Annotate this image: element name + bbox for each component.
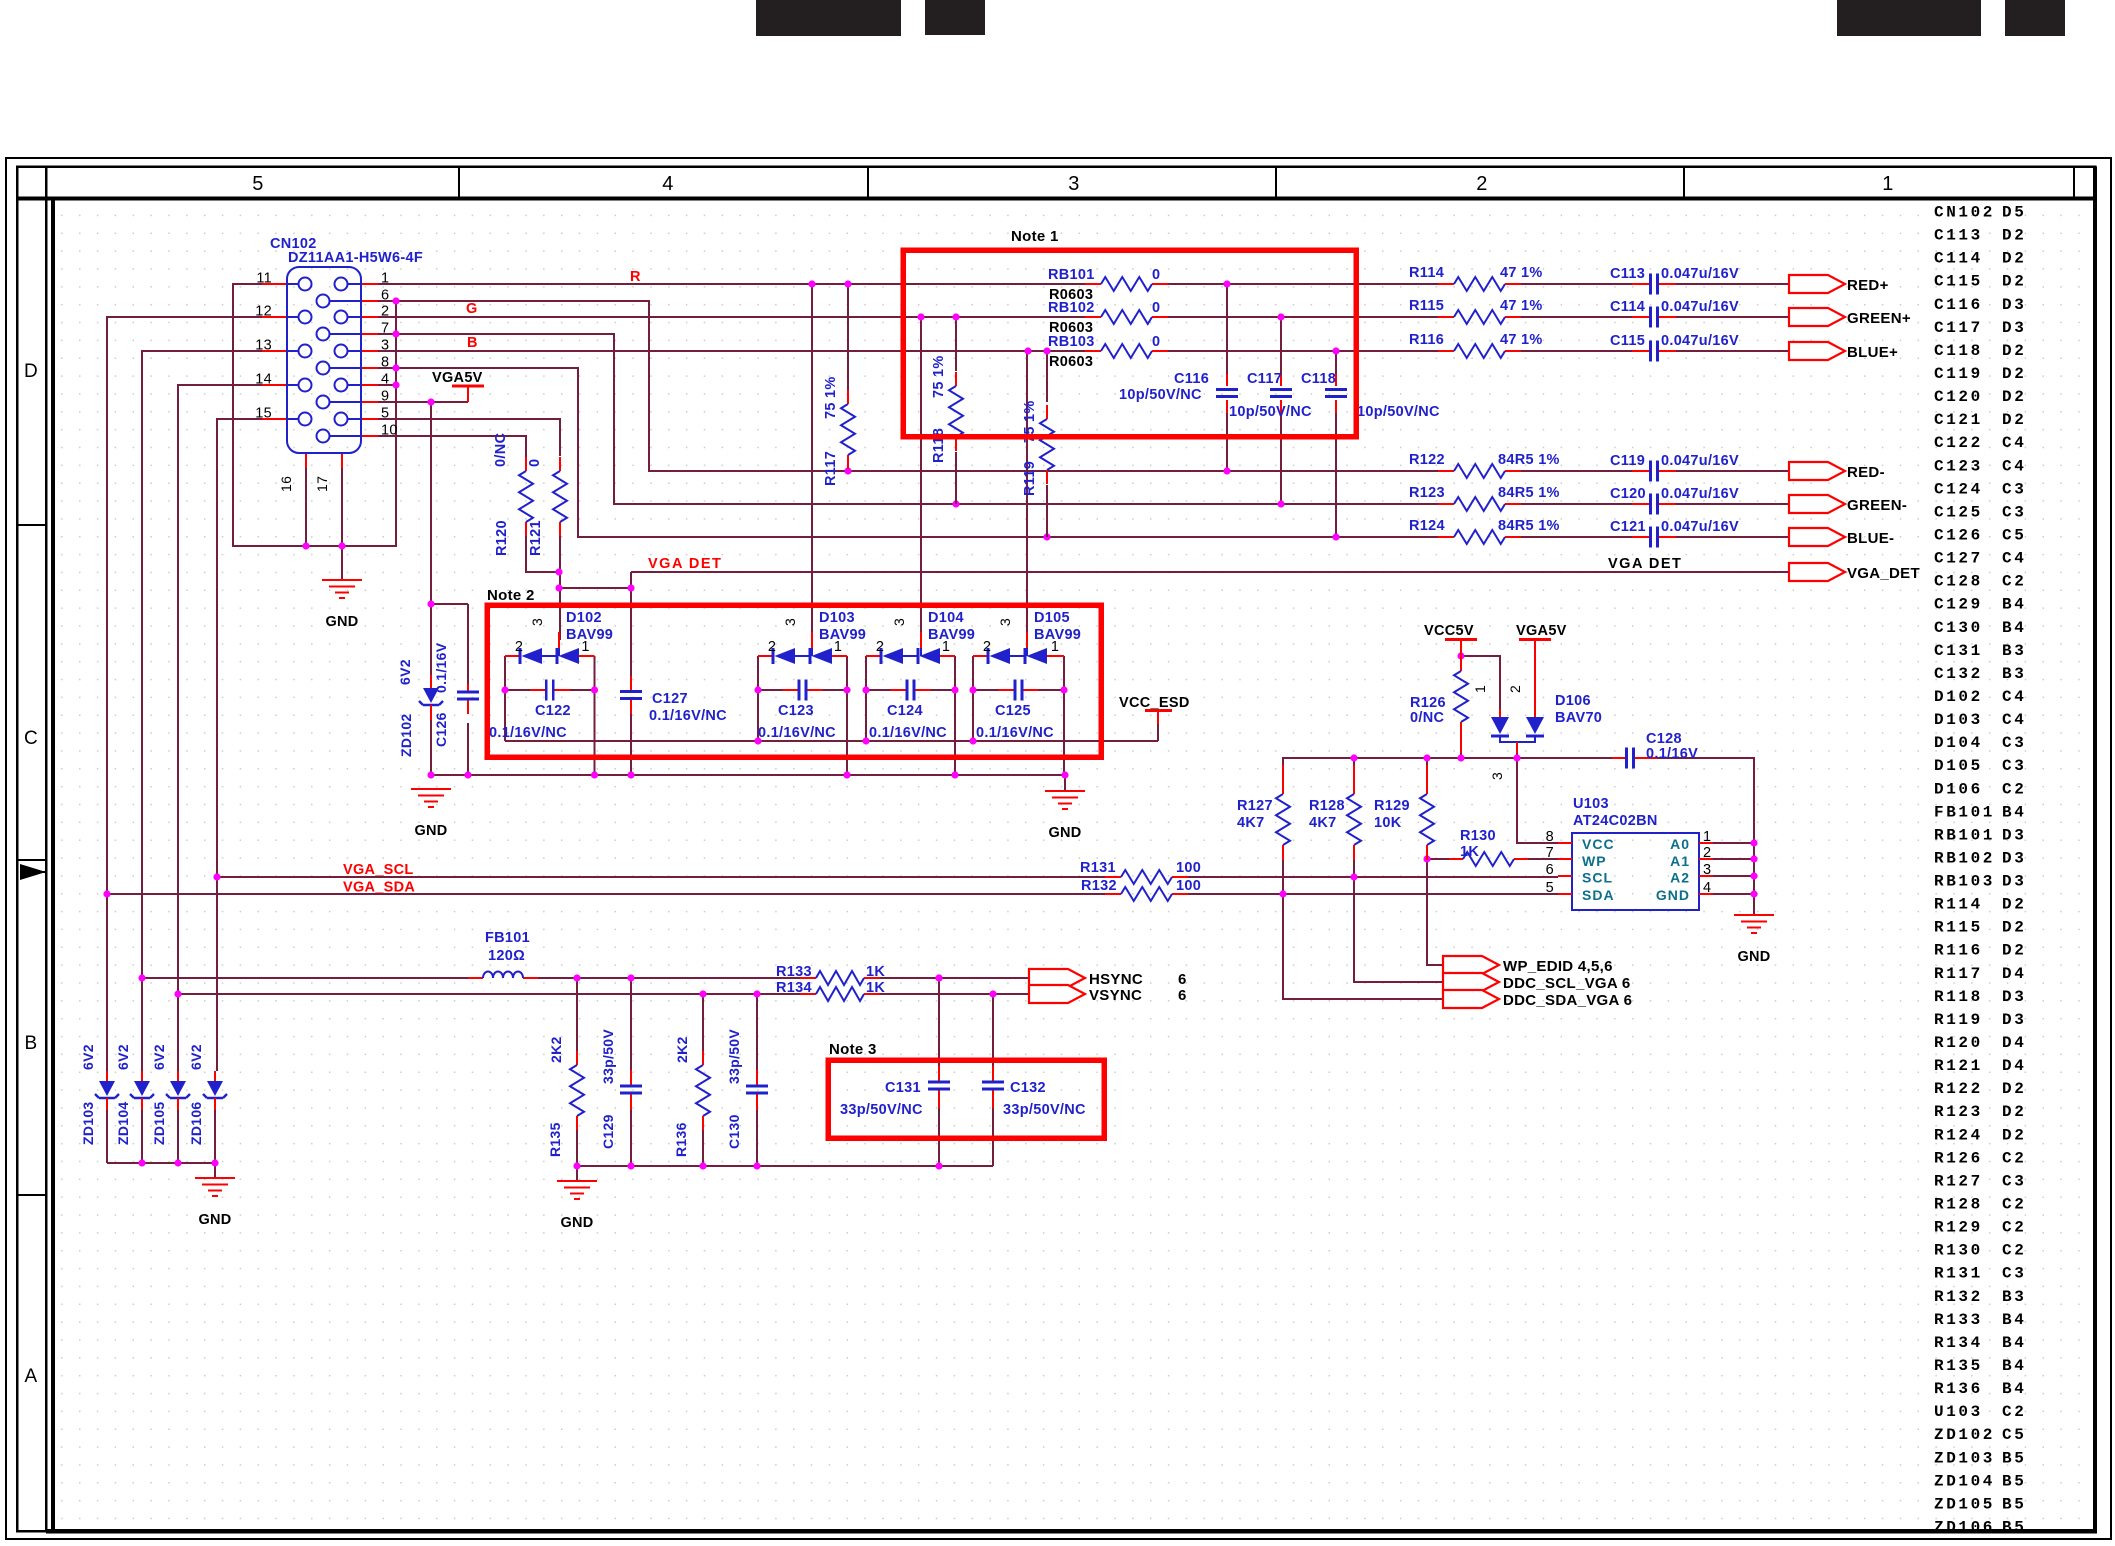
svg-text:B3: B3: [2002, 665, 2026, 683]
column zone dividers: [459, 167, 2074, 199]
svg-text:RB103: RB103: [1934, 873, 1995, 891]
svg-text:GND: GND: [1737, 949, 1770, 965]
wire ZD102 branch from pin9: [431, 402, 468, 775]
resistor R114 47 1%: [1409, 265, 1543, 291]
svg-text:Note 1: Note 1: [1011, 228, 1059, 245]
svg-text:C126: C126: [1934, 526, 1983, 544]
svg-text:R117: R117: [823, 451, 839, 486]
svg-text:5: 5: [252, 173, 263, 195]
svg-text:ZD106: ZD106: [188, 1101, 204, 1145]
wire D105 pin3 column: [1026, 351, 1028, 632]
svg-text:R126: R126: [1934, 1149, 1983, 1167]
ground symbol ZD102: [411, 789, 451, 807]
svg-text:D: D: [24, 361, 38, 382]
capacitor C123 0.1/16V/NC: [758, 680, 836, 742]
svg-text:VGA_DET: VGA_DET: [1847, 565, 1920, 582]
svg-text:D3: D3: [2002, 873, 2026, 891]
wire C127 column: [630, 676, 632, 775]
wire D104 pin3 column: [920, 317, 922, 632]
svg-text:GREEN+: GREEN+: [1847, 310, 1911, 327]
svg-text:D3: D3: [2002, 1011, 2026, 1029]
svg-text:R132: R132: [1081, 878, 1117, 894]
svg-text:33p/50V: 33p/50V: [600, 1029, 616, 1084]
svg-text:VCC5V: VCC5V: [1424, 623, 1474, 639]
svg-text:C115: C115: [1610, 333, 1645, 349]
svg-text:D2: D2: [2002, 1080, 2026, 1098]
svg-text:A0: A0: [1670, 836, 1690, 852]
resistor R118 75 1%: [931, 355, 963, 463]
svg-text:C129: C129: [600, 1114, 616, 1149]
wire net VSYNC (pin14): [178, 385, 1029, 1071]
svg-text:R115: R115: [1409, 298, 1444, 314]
svg-text:C118: C118: [1934, 342, 1983, 360]
svg-text:D2: D2: [2002, 227, 2026, 245]
svg-text:C2: C2: [2002, 1219, 2026, 1237]
svg-text:1K: 1K: [866, 980, 885, 996]
svg-text:C119: C119: [1610, 453, 1645, 469]
svg-text:D4: D4: [2002, 965, 2026, 983]
svg-text:3: 3: [529, 618, 545, 626]
svg-text:75 1%: 75 1%: [823, 376, 839, 419]
svg-text:1: 1: [1882, 173, 1893, 195]
svg-text:D2: D2: [2002, 942, 2026, 960]
svg-text:2: 2: [1507, 685, 1523, 693]
svg-text:12: 12: [255, 304, 272, 320]
svg-text:7: 7: [381, 321, 389, 337]
svg-text:B5: B5: [2002, 1449, 2026, 1467]
svg-text:GND: GND: [325, 614, 358, 630]
resistor R126 0/NC: [1410, 656, 1468, 753]
svg-text:C126: C126: [433, 712, 449, 747]
svg-text:0.047u/16V: 0.047u/16V: [1661, 333, 1739, 349]
svg-text:B4: B4: [2002, 1311, 2026, 1329]
capacitor C126 0.1/16V: [433, 642, 479, 747]
svg-text:1: 1: [1703, 829, 1711, 845]
svg-text:C3: C3: [2002, 480, 2026, 498]
svg-text:D4: D4: [2002, 1057, 2026, 1075]
port GREEN+: [1789, 308, 1911, 327]
svg-text:R136: R136: [1934, 1380, 1983, 1398]
svg-text:D104: D104: [928, 610, 964, 626]
svg-text:B: B: [25, 1033, 38, 1054]
wire U103 right pins to GND column: [1713, 843, 1754, 894]
svg-text:ZD103: ZD103: [80, 1101, 96, 1145]
svg-text:B4: B4: [2002, 1380, 2026, 1398]
svg-text:R120: R120: [1934, 1034, 1983, 1052]
svg-text:D2: D2: [2002, 365, 2026, 383]
svg-text:0.047u/16V: 0.047u/16V: [1661, 486, 1739, 502]
svg-text:B5: B5: [2002, 1472, 2026, 1490]
svg-text:0.1/16V/NC: 0.1/16V/NC: [869, 725, 947, 741]
wire net VGA_SCL (pin15): [217, 419, 1558, 1071]
svg-text:R116: R116: [1409, 332, 1444, 348]
redaction bar 3: [1837, 0, 1981, 36]
redaction bar 1: [756, 0, 901, 36]
svg-text:7: 7: [1546, 845, 1554, 861]
svg-text:ZD105: ZD105: [1934, 1495, 1995, 1513]
svg-text:13: 13: [255, 338, 272, 354]
svg-text:D3: D3: [2002, 826, 2026, 844]
svg-text:C121: C121: [1934, 411, 1983, 429]
svg-text:C117: C117: [1934, 319, 1983, 337]
svg-text:FB101: FB101: [485, 930, 530, 946]
svg-text:R120: R120: [494, 520, 510, 556]
svg-text:R118: R118: [1934, 988, 1983, 1006]
svg-text:BAV99: BAV99: [819, 627, 866, 643]
svg-text:B4: B4: [2002, 619, 2026, 637]
svg-text:33p/50V/NC: 33p/50V/NC: [840, 1102, 923, 1118]
zener diode ZD104 6V2: [115, 1044, 154, 1145]
svg-text:A1: A1: [1670, 853, 1690, 869]
svg-text:2: 2: [515, 639, 523, 655]
port DDC_SCL_VGA: [1443, 973, 1631, 992]
svg-text:R130: R130: [1934, 1242, 1983, 1260]
svg-text:R135: R135: [547, 1122, 563, 1157]
svg-text:B5: B5: [2002, 1495, 2026, 1513]
svg-text:Note 3: Note 3: [829, 1041, 877, 1058]
svg-text:GREEN-: GREEN-: [1847, 497, 1907, 514]
svg-text:WP_EDID 4,5,6: WP_EDID 4,5,6: [1503, 958, 1613, 975]
svg-text:3: 3: [997, 618, 1013, 626]
svg-text:3: 3: [1068, 173, 1079, 195]
svg-text:C3: C3: [2002, 1172, 2026, 1190]
svg-text:R135: R135: [1934, 1357, 1983, 1375]
svg-text:3: 3: [381, 338, 389, 354]
svg-text:R128: R128: [1309, 798, 1345, 814]
svg-text:ZD106: ZD106: [1934, 1518, 1995, 1536]
svg-text:R: R: [630, 269, 641, 285]
wire net RED (pin1 row): [378, 283, 1789, 285]
svg-text:C114: C114: [1610, 299, 1645, 315]
svg-text:C113: C113: [1934, 227, 1983, 245]
svg-text:R127: R127: [1237, 798, 1273, 814]
dual diode D104 BAV99: [866, 610, 975, 664]
capacitor C115 0.047u/16V: [1610, 333, 1739, 362]
capacitor C116 10p/50V/NC: [1216, 374, 1238, 413]
svg-text:C115: C115: [1934, 273, 1983, 291]
svg-text:R121: R121: [1934, 1057, 1983, 1075]
capacitor C127 0.1/16V/NC: [620, 676, 727, 724]
svg-text:GND: GND: [1048, 825, 1081, 841]
redaction bar 2: [925, 0, 985, 35]
capacitor C129 33p/50V: [600, 1029, 642, 1149]
capacitor C128 0.1/16V: [1612, 731, 1698, 769]
svg-text:4K7: 4K7: [1237, 815, 1265, 831]
svg-text:R122: R122: [1409, 452, 1445, 468]
svg-text:B3: B3: [2002, 642, 2026, 660]
svg-text:VGA_SDA: VGA_SDA: [343, 880, 415, 896]
redaction bar 4: [2005, 0, 2065, 36]
svg-text:R114: R114: [1409, 265, 1444, 281]
resistor R134 1K: [776, 980, 885, 1001]
resistor R115 47 1%: [1409, 298, 1543, 324]
wire R118 column: [955, 317, 957, 371]
svg-text:3: 3: [891, 618, 907, 626]
svg-text:D2: D2: [2002, 273, 2026, 291]
resistor RB101 0 R0603: [1048, 267, 1168, 303]
svg-text:1: 1: [942, 639, 950, 655]
svg-text:B5: B5: [2002, 1518, 2026, 1536]
svg-text:84R5 1%: 84R5 1%: [1498, 485, 1560, 501]
svg-text:C128: C128: [1934, 573, 1983, 591]
capacitor C121 0.047u/16V: [1610, 519, 1739, 548]
svg-text:0.047u/16V: 0.047u/16V: [1661, 266, 1739, 282]
svg-text:C124: C124: [887, 703, 923, 719]
svg-text:33p/50V/NC: 33p/50V/NC: [1003, 1102, 1086, 1118]
resistor R116 47 1%: [1409, 332, 1543, 358]
svg-text:R119: R119: [1022, 461, 1038, 496]
svg-text:8: 8: [1546, 829, 1554, 845]
svg-text:D102: D102: [566, 610, 602, 626]
svg-text:GND: GND: [414, 823, 447, 839]
dual diode D105 BAV99: [973, 610, 1081, 664]
capacitor C118 10p/50V/NC: [1325, 374, 1347, 413]
svg-text:R126: R126: [1410, 695, 1446, 711]
svg-text:C114: C114: [1934, 250, 1983, 268]
svg-text:1K: 1K: [866, 964, 885, 980]
svg-text:B4: B4: [2002, 596, 2026, 614]
svg-text:D2: D2: [2002, 1103, 2026, 1121]
svg-text:84R5 1%: 84R5 1%: [1498, 518, 1560, 534]
svg-text:2: 2: [876, 639, 884, 655]
resistor R131 100: [1080, 860, 1201, 884]
svg-text:17: 17: [314, 476, 330, 492]
capacitor C132 33p/50V/NC: [982, 1066, 1004, 1108]
svg-text:R117: R117: [1934, 965, 1983, 983]
svg-text:0: 0: [1152, 334, 1160, 350]
svg-text:C2: C2: [2002, 1403, 2026, 1421]
resistor RB102 0 R0603: [1048, 300, 1168, 336]
svg-text:U103: U103: [1573, 796, 1609, 812]
svg-text:C123: C123: [1934, 457, 1983, 475]
wire net GREEN (pin2 row): [378, 316, 1789, 318]
svg-text:33p/50V: 33p/50V: [726, 1029, 742, 1084]
svg-text:C125: C125: [995, 703, 1031, 719]
svg-text:C130: C130: [1934, 619, 1983, 637]
wire C117 column: [1280, 317, 1282, 504]
wire net GREEN- return (pin7): [378, 334, 1789, 504]
svg-text:D103: D103: [819, 610, 855, 626]
svg-text:RB101: RB101: [1934, 826, 1995, 844]
wire net VGA5V pin9: [378, 401, 468, 403]
svg-text:C2: C2: [2002, 1149, 2026, 1167]
wire pin4 to ground column: [378, 384, 396, 386]
svg-text:C4: C4: [2002, 688, 2026, 706]
svg-text:R123: R123: [1934, 1103, 1983, 1121]
svg-text:D106: D106: [1555, 693, 1591, 709]
svg-text:C3: C3: [2002, 503, 2026, 521]
wire C132 column: [992, 994, 994, 1166]
reference designator list: [1934, 204, 2026, 1537]
svg-text:D5: D5: [2002, 204, 2026, 222]
svg-text:C123: C123: [778, 703, 814, 719]
dual diode D103 BAV99: [758, 610, 866, 664]
svg-text:0.047u/16V: 0.047u/16V: [1661, 453, 1739, 469]
wire R128 column / DDC_SCL: [1354, 860, 1443, 982]
wire VCC5V / D106: [1461, 656, 1500, 709]
ground symbol ZD bus: [195, 1178, 235, 1196]
svg-text:47 1%: 47 1%: [1500, 265, 1543, 281]
svg-text:C119: C119: [1934, 365, 1983, 383]
svg-text:C121: C121: [1610, 519, 1646, 535]
svg-text:6: 6: [1178, 971, 1187, 988]
resistor R123 84R5 1%: [1409, 485, 1560, 511]
note 1 box: [903, 250, 1356, 437]
svg-text:ZD102: ZD102: [398, 713, 414, 757]
wire R136 column: [702, 994, 704, 1166]
svg-text:C127: C127: [1934, 550, 1983, 568]
svg-text:VCC_ESD: VCC_ESD: [1119, 695, 1190, 711]
svg-text:0.1/16V/NC: 0.1/16V/NC: [649, 708, 727, 724]
svg-text:0.1/16V: 0.1/16V: [433, 642, 449, 693]
svg-text:C116: C116: [1174, 371, 1209, 387]
resistor R128 4K7: [1309, 765, 1361, 860]
wire VCC_ESD rail: [505, 724, 1158, 741]
wire net BLUE (pin3 row): [378, 350, 1789, 352]
wire net VGA_DET: [526, 536, 1789, 676]
svg-text:B: B: [467, 335, 478, 351]
zener diode ZD103 6V2: [80, 1044, 119, 1145]
svg-text:C132: C132: [1010, 1080, 1046, 1096]
svg-text:R115: R115: [1934, 919, 1983, 937]
svg-text:DZ11AA1-H5W6-4F: DZ11AA1-H5W6-4F: [288, 250, 423, 266]
svg-text:84R5 1%: 84R5 1%: [1498, 452, 1560, 468]
svg-text:10: 10: [381, 423, 398, 439]
dual diode D106 BAV70: [1472, 685, 1602, 780]
svg-text:R133: R133: [1934, 1311, 1983, 1329]
svg-text:2K2: 2K2: [674, 1036, 690, 1063]
svg-text:10p/50V/NC: 10p/50V/NC: [1119, 387, 1202, 403]
port BLUE-: [1789, 528, 1894, 547]
wire net BLUE- return (pin8): [378, 368, 1789, 537]
svg-text:2: 2: [1703, 845, 1711, 861]
svg-text:D105: D105: [1934, 757, 1983, 775]
svg-text:C125: C125: [1934, 503, 1983, 521]
resistor R130 1K: [1449, 828, 1528, 866]
svg-text:C120: C120: [1934, 388, 1983, 406]
svg-text:0: 0: [1152, 300, 1160, 316]
svg-text:15: 15: [255, 406, 272, 422]
svg-text:VGA_SCL: VGA_SCL: [343, 862, 414, 878]
svg-text:D2: D2: [2002, 250, 2026, 268]
svg-text:0/NC: 0/NC: [1410, 710, 1444, 726]
svg-text:D104: D104: [1934, 734, 1983, 752]
svg-text:BLUE+: BLUE+: [1847, 344, 1898, 361]
svg-text:C4: C4: [2002, 434, 2026, 452]
wire net RED- return (pin6): [378, 301, 1789, 471]
ground symbol U103: [1734, 915, 1774, 933]
wire GND bus of note2: [431, 775, 1065, 791]
sheet arrow marker: [20, 864, 46, 880]
svg-text:HSYNC: HSYNC: [1089, 971, 1143, 988]
wire pin10 to R120: [378, 436, 526, 457]
wire D103 pin3 column: [811, 284, 813, 632]
capacitor C113 0.047u/16V: [1610, 266, 1739, 295]
svg-text:10p/50V/NC: 10p/50V/NC: [1357, 404, 1440, 420]
wire ESD diode loop at x=505: [505, 656, 595, 775]
svg-text:D103: D103: [1934, 711, 1983, 729]
svg-text:100: 100: [1176, 878, 1201, 894]
zener diode ZD102 6V2: [397, 659, 443, 757]
svg-text:R121: R121: [528, 520, 544, 556]
svg-text:C127: C127: [652, 691, 688, 707]
svg-text:2: 2: [1476, 173, 1487, 195]
svg-text:ZD103: ZD103: [1934, 1449, 1995, 1467]
capacitor C130 33p/50V: [726, 1029, 768, 1149]
svg-text:RB101: RB101: [1048, 267, 1095, 283]
wire C116 column: [1226, 284, 1228, 471]
svg-text:1: 1: [581, 639, 589, 655]
resistor R121 0: [527, 457, 567, 556]
svg-text:C122: C122: [1934, 434, 1983, 452]
port VSYNC: [1029, 985, 1187, 1004]
wire C129 column: [630, 978, 632, 1166]
wire VCC bus (pullups): [1283, 753, 1754, 915]
capacitor C122 0.1/16V/NC: [489, 680, 571, 742]
svg-text:C2: C2: [2002, 780, 2026, 798]
capacitor C114 0.047u/16V: [1610, 299, 1739, 328]
zener diode ZD105 6V2: [151, 1044, 190, 1145]
svg-text:B4: B4: [2002, 1334, 2026, 1352]
svg-text:0.047u/16V: 0.047u/16V: [1661, 519, 1739, 535]
svg-text:R124: R124: [1409, 518, 1445, 534]
svg-text:VGA5V: VGA5V: [1516, 623, 1567, 639]
svg-text:VGA DET: VGA DET: [1608, 556, 1682, 572]
wire net HSYNC (pin13): [142, 351, 1029, 1071]
svg-text:0/NC: 0/NC: [493, 433, 509, 467]
svg-text:D4: D4: [2002, 1034, 2026, 1052]
resistor RB103 0 R0603: [1048, 334, 1168, 370]
svg-text:R134: R134: [776, 980, 812, 996]
capacitor C120 0.047u/16V: [1610, 486, 1739, 515]
svg-text:4K7: 4K7: [1309, 815, 1337, 831]
wire R119 column: [1046, 351, 1048, 402]
resistor R119 75 1%: [1022, 400, 1054, 496]
dual diode D102 BAV99: [505, 610, 613, 664]
svg-text:3: 3: [782, 618, 798, 626]
port GREEN-: [1789, 495, 1907, 514]
svg-text:C3: C3: [2002, 757, 2026, 775]
svg-text:R127: R127: [1934, 1172, 1983, 1190]
svg-text:ZD104: ZD104: [1934, 1472, 1995, 1490]
svg-text:RB102: RB102: [1048, 300, 1095, 316]
resistor R122 84R5 1%: [1409, 452, 1560, 478]
red pin stubs: [262, 284, 378, 468]
svg-text:BAV70: BAV70: [1555, 710, 1602, 726]
svg-text:C4: C4: [2002, 711, 2026, 729]
svg-text:1: 1: [1472, 685, 1488, 693]
svg-text:GND: GND: [560, 1215, 593, 1231]
svg-text:R131: R131: [1080, 860, 1116, 876]
svg-text:CN102: CN102: [1934, 204, 1995, 222]
svg-text:C117: C117: [1247, 371, 1282, 387]
wire pin5 to R121 / VGA_DET: [378, 419, 560, 456]
svg-text:3: 3: [1489, 772, 1505, 780]
svg-text:C4: C4: [2002, 550, 2026, 568]
svg-text:U103: U103: [1934, 1403, 1983, 1421]
svg-text:R133: R133: [776, 964, 812, 980]
port HSYNC: [1029, 969, 1187, 988]
wire C131 column: [938, 978, 940, 1166]
svg-text:R124: R124: [1934, 1126, 1983, 1144]
wire R117 column: [847, 284, 849, 390]
svg-text:B3: B3: [2002, 1288, 2026, 1306]
capacitor C119 0.047u/16V: [1610, 453, 1739, 482]
svg-text:A: A: [25, 1366, 38, 1387]
svg-text:R118: R118: [931, 428, 947, 463]
capacitor C124 0.1/16V/NC: [869, 680, 947, 742]
note 2 box: [487, 605, 1101, 757]
